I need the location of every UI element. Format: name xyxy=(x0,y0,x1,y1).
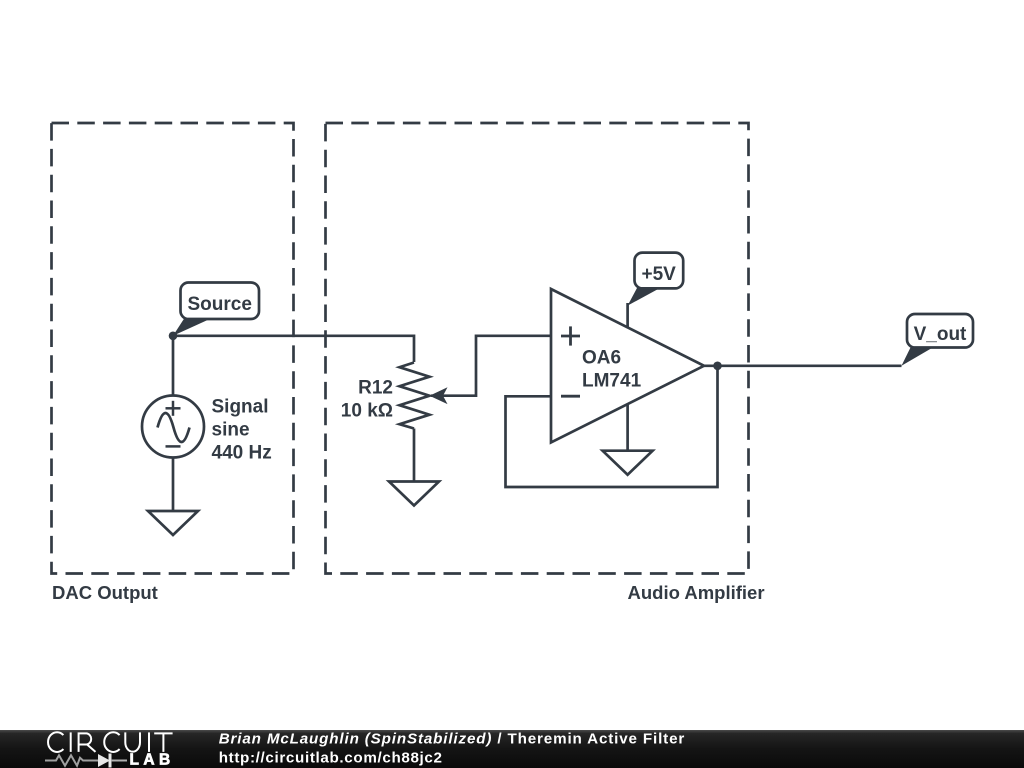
wire R12 bottom to ground xyxy=(413,429,416,482)
dashed box Audio Amplifier xyxy=(326,123,749,574)
svg-text:V_out: V_out xyxy=(914,324,967,345)
node label Source callout xyxy=(173,283,259,336)
wire Source node down to V1 xyxy=(172,336,175,396)
junction dot output xyxy=(713,362,722,371)
svg-text:LAB: LAB xyxy=(130,751,175,768)
svg-text:+5V: +5V xyxy=(642,264,677,285)
op-amp plus input symbol xyxy=(561,326,580,345)
svg-text:Source: Source xyxy=(187,294,251,315)
logo CIRCUIT text xyxy=(48,732,173,752)
svg-text:440 Hz: 440 Hz xyxy=(212,443,272,464)
svg-text:10 kΩ: 10 kΩ xyxy=(341,401,393,422)
wire op-amp power pin to +5V xyxy=(626,303,629,328)
voltage source V1 circle xyxy=(142,396,204,458)
dashed box DAC Output xyxy=(52,123,294,574)
node label V_out callout xyxy=(902,314,974,366)
voltage source minus sign xyxy=(166,445,181,448)
logo diode xyxy=(98,754,110,767)
wire feedback loop output to minus input xyxy=(506,366,718,487)
label OA6 LM741 xyxy=(582,348,642,392)
wire V1 to ground xyxy=(172,458,175,512)
label R12 value xyxy=(341,378,393,422)
voltage source sine wave xyxy=(158,413,190,442)
svg-text:sine: sine xyxy=(212,420,250,441)
svg-text:Brian McLaughlin (SpinStabiliz: Brian McLaughlin (SpinStabilized) / Ther… xyxy=(219,731,685,748)
wire op-amp output to V_out xyxy=(704,364,902,367)
svg-text:DAC Output: DAC Output xyxy=(52,582,158,603)
ground under V1 xyxy=(148,511,198,535)
wire op-amp ground pin xyxy=(626,404,629,451)
svg-text:http://circuitlab.com/ch88jc2: http://circuitlab.com/ch88jc2 xyxy=(219,750,443,767)
power label +5V callout xyxy=(628,253,684,306)
potentiometer R12 zigzag xyxy=(400,363,430,429)
svg-text:Audio Amplifier: Audio Amplifier xyxy=(628,582,765,603)
svg-text:OA6: OA6 xyxy=(582,348,621,369)
svg-text:LM741: LM741 xyxy=(582,371,642,392)
svg-text:R12: R12 xyxy=(358,378,393,399)
op-amp minus input symbol xyxy=(561,395,580,398)
ground under R12 xyxy=(389,482,439,506)
ground under op-amp xyxy=(603,451,653,475)
op-amp OA6 triangle xyxy=(551,289,704,443)
svg-text:Signal: Signal xyxy=(212,397,269,418)
voltage source plus sign xyxy=(166,401,181,416)
label Signal source xyxy=(212,397,272,464)
R12 wiper arrow xyxy=(430,387,448,404)
wire Source node to R12 top xyxy=(173,336,414,362)
wire R12 wiper to op-amp + input xyxy=(431,336,551,396)
logo squiggle resistor xyxy=(45,755,98,765)
junction dot Source xyxy=(169,332,178,341)
footer bar xyxy=(0,730,1024,768)
